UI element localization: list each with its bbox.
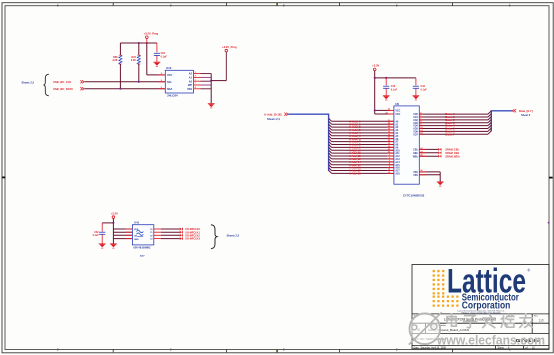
wire cap rail [375,77,416,79]
svg-text:0.1uF: 0.1uF [93,235,100,237]
svg-text:VSS: VSS [187,88,192,91]
wire XO-MFCLK1 [154,231,161,233]
wire Data_0 [419,113,488,115]
border tick bottom [276,349,278,352]
svg-text:19: 19 [388,172,390,174]
border tick right [549,177,553,179]
off-page connector XO-MFCLK0 [180,227,183,230]
wire A-Add_17 [329,168,332,171]
wire A-Add_16 [329,165,332,168]
svg-text:A11: A11 [395,152,400,155]
wire SRAM_WEb [419,155,438,157]
wire Data_7 [419,133,488,135]
off-page connector SRAM_WEb [438,155,441,158]
node rail/power tee [210,80,212,82]
svg-text:24LC64: 24LC64 [167,94,178,98]
svg-text:10: 10 [420,127,422,129]
svg-text:A13: A13 [395,158,400,161]
wire A-Add_10 [329,147,332,150]
svg-text:I/O5: I/O5 [413,129,418,131]
off-page connector Data bus [512,109,516,112]
wire XO-MFCLK2 [154,234,161,236]
node junction power drop [146,42,148,44]
svg-text:Sheets 2,3: Sheets 2,3 [227,234,240,237]
svg-text:8: 8 [420,121,421,123]
U10 left pin stubs [158,74,165,76]
svg-text:A10: A10 [395,149,400,152]
wire Data_4 [419,125,488,127]
svg-text:USB_I2C_CLK: USB_I2C_CLK [53,80,71,84]
resistor R68 [119,43,121,55]
ground under C43 [383,95,390,97]
wire A-Add_2 [329,124,332,127]
capacitor C43 [385,78,387,86]
node cap rail tee [374,77,376,79]
svg-text:22: 22 [388,123,390,125]
svg-text:WP: WP [188,84,192,87]
off-page connector USB_I2C_DATA [80,87,84,90]
svg-text:GND: GND [134,239,139,241]
osc wires to U41 [113,228,132,230]
svg-text:VCC: VCC [395,114,400,116]
svg-text:23: 23 [388,126,390,128]
svg-text:13: 13 [420,130,422,132]
ground under power rail [110,243,117,245]
svg-text:+3.3V: +3.3V [372,64,379,68]
svg-text:28: 28 [388,140,390,142]
svg-text:30: 30 [388,146,390,148]
oscillator U41 [132,225,153,245]
off-page connector XO-MFCLK2 [180,234,183,237]
wire A-Add_9 [329,144,332,147]
svg-text:0.1uF: 0.1uF [421,88,428,91]
svg-text:Data_[0-7]: Data_[0-7] [519,109,533,113]
svg-text:A17: A17 [395,170,400,173]
svg-text:I/O4: I/O4 [413,125,418,128]
wire A-Add_3 [329,127,332,130]
sram U8 [394,106,419,184]
wire A-Add_8 [329,141,332,144]
ground sram VSS [437,181,444,183]
svg-text:C62: C62 [94,232,99,234]
svg-text:26: 26 [388,134,390,136]
svg-text:32: 32 [388,152,390,154]
svg-text:Data_7: Data_7 [445,133,455,136]
svg-text:Sheets 2,3: Sheets 2,3 [22,82,35,85]
svg-text:1: 1 [389,155,390,157]
svg-text:I/O7: I/O7 [413,134,418,136]
svg-text:27: 27 [388,137,390,139]
wire A-Add_0 [329,118,332,121]
title block box [412,265,549,349]
wire A-Add_11 [329,150,332,153]
wire A-Add_4 [329,130,332,133]
resistor R24 [138,43,140,55]
capacitor C64 [156,43,158,52]
off-page connector A-Add bus [284,113,288,116]
zone number marks [57,5,58,7]
node junction R24 top [138,42,140,44]
svg-text:+3.3V_Preg: +3.3V_Preg [144,32,159,36]
off-page connector SRAM_OEb [438,151,441,154]
ground under C64 [154,61,161,63]
watermark chinese text (vector strokes) [447,314,532,328]
svg-text:7: 7 [420,118,421,120]
svg-text:SRAM_WEb: SRAM_WEb [445,155,460,158]
wire Data_6 [419,130,488,132]
brace right osc [211,225,217,249]
wire SRAM_OEb [419,152,438,154]
svg-text:A-Add_18: A-Add_18 [349,173,361,176]
border tick top [276,3,278,6]
svg-text:6: 6 [420,115,421,117]
ground under U10 rail [208,103,215,105]
wire A-Add_1 [329,121,332,124]
svg-text:VCC: VCC [395,110,400,112]
svg-text:CY7C1049DV33: CY7C1049DV33 [403,193,425,197]
svg-text:A12: A12 [395,155,400,158]
svg-text:+3.3V_Preg: +3.3V_Preg [222,45,237,49]
svg-text:5: 5 [420,113,421,115]
svg-text:29: 29 [388,143,390,145]
wire to cap [102,222,113,224]
power +3.3V osc [112,216,115,219]
address bus A-Add_[0-18] [288,113,328,115]
ground under C62 [99,243,106,245]
svg-text:www.elecfans.com: www.elecfans.com [436,334,545,348]
off-page connector XO-MFCLK1 [180,231,183,234]
svg-text:18: 18 [388,169,390,171]
off-page connector USB_I2C_CLK [80,80,84,83]
wire A-Add_5 [329,133,332,136]
U10 right pins to common rail [194,73,201,75]
wire Data_2 [419,119,488,121]
svg-text:®: ® [527,268,530,273]
svg-text:29: 29 [420,155,422,157]
wire A-Add_7 [329,139,332,142]
svg-text:I/O6: I/O6 [413,131,418,133]
svg-text:I/O3: I/O3 [413,123,418,125]
wire right rail [210,74,212,104]
svg-text:VDD: VDD [134,229,139,231]
wire A-Add_18 [329,170,332,173]
svg-text:SDA: SDA [167,88,172,91]
wire XO-MFCLK0 [154,228,161,230]
capacitor C62 [99,231,105,233]
wire VSS down [439,172,441,182]
svg-text:VCC: VCC [167,74,172,77]
svg-text:21: 21 [388,120,390,122]
svg-text:22: 22 [420,148,422,150]
wire Data_3 [419,122,488,124]
svg-text:WEb: WEb [413,156,419,158]
svg-text:Sheet 2: Sheet 2 [521,113,531,117]
svg-text:U10: U10 [166,66,172,70]
wire pullup top rail [120,42,156,44]
svg-text:3.3K: 3.3K [112,59,117,62]
wire VCC drop [146,43,148,75]
wire XO-MFCLK3 [154,238,161,240]
svg-text:SCL: SCL [167,81,172,84]
title block grid lines [412,313,549,315]
border zone ticks top/bottom [112,3,114,6]
svg-text:USB_I2C_DATA: USB_I2C_DATA [53,87,73,91]
svg-text:ASV-48.000MHZ: ASV-48.000MHZ [133,246,151,249]
svg-text:OEb: OEb [413,153,418,155]
wire Data_5 [419,127,488,129]
svg-text:ASV: ASV [140,254,145,257]
node junction R68/SDA [119,88,121,90]
svg-text:2: 2 [389,157,390,159]
svg-text:33: 33 [388,109,390,111]
svg-text:3: 3 [389,160,390,162]
node junction R24/SCL [138,81,140,83]
svg-text:A16: A16 [395,167,400,170]
wire A-Add_12 [329,153,332,156]
svg-text:Sheets 2,4: Sheets 2,4 [267,117,280,121]
svg-text:+3.3V: +3.3V [111,211,118,215]
power +3.3V sram [373,68,376,71]
wire A-Add_13 [329,156,332,159]
svg-text:0.1uF: 0.1uF [391,88,398,91]
svg-text:A14: A14 [395,161,400,164]
svg-text:1.0: 1.0 [539,319,544,323]
wire USB_I2C_CLK [85,81,166,83]
svg-text:5: 5 [389,166,390,168]
data bus Data_[0-7] [491,110,512,112]
off-page connector SRAM_CEb [438,148,441,151]
wire USB_I2C_DATA [85,88,166,90]
svg-text:I/O2: I/O2 [413,120,418,122]
svg-text:XO-MFCLK3: XO-MFCLK3 [185,238,200,241]
svg-text:VSS: VSS [413,175,418,177]
wire A-Add_6 [329,136,332,139]
svg-text:0.1uF: 0.1uF [161,55,168,58]
ground under C44 [413,95,420,97]
svg-text:I/O1: I/O1 [413,117,418,119]
capacitor C44 [415,78,417,86]
wire A-Add_14 [329,159,332,162]
stray dot right border [548,222,550,224]
off-page connector XO-MFCLK3 [180,237,183,240]
U8 VCC pins [374,110,376,114]
svg-text:CEb: CEb [413,150,418,152]
brace left [44,74,49,96]
eeprom U10 [165,70,193,93]
svg-text:U41: U41 [134,221,139,225]
svg-text:31: 31 [388,149,390,151]
power +3.3V_Preg [146,36,149,39]
svg-text:A-Add_[0-18]: A-Add_[0-18] [264,112,281,116]
svg-text:I/O0: I/O0 [413,114,418,116]
wire SRAM_CEb [419,148,438,150]
svg-text:A18: A18 [395,173,400,176]
svg-text:VSS: VSS [413,172,418,174]
watermark circle logo [409,312,442,344]
wire Data_1 [419,116,488,118]
osc logo squiggle [137,230,144,235]
node osc cap tee [112,222,114,224]
svg-text:9: 9 [420,124,421,126]
svg-text:A15: A15 [395,164,400,167]
wire A-Add_15 [329,162,332,165]
lattice logo dots [433,270,459,307]
svg-text:3.3K: 3.3K [131,59,136,62]
power +3.3V_Preg right [225,49,228,52]
border tick left [2,177,5,179]
svg-text:U8: U8 [395,102,399,106]
svg-text:25: 25 [388,131,390,133]
